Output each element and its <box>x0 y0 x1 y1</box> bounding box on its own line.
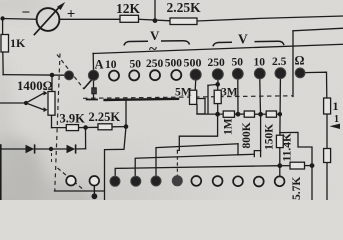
svg-text:5M: 5M <box>175 87 192 99</box>
svg-text:12K: 12K <box>116 1 141 16</box>
svg-text:+: + <box>67 7 76 23</box>
svg-text:50: 50 <box>232 57 244 69</box>
svg-text:2.25K: 2.25K <box>89 110 121 124</box>
svg-text:3.9K: 3.9K <box>60 112 86 126</box>
svg-text:1400Ω: 1400Ω <box>17 79 53 93</box>
svg-text:−: − <box>22 5 31 21</box>
svg-text:V: V <box>238 32 248 47</box>
svg-text:250: 250 <box>146 58 164 70</box>
svg-text:2.25K: 2.25K <box>167 0 202 15</box>
svg-text:1: 1 <box>334 114 339 125</box>
svg-text:Ω: Ω <box>295 54 305 68</box>
svg-text:5.7K: 5.7K <box>291 177 303 200</box>
svg-text:3M: 3M <box>221 87 238 99</box>
svg-text:~: ~ <box>149 42 157 58</box>
svg-text:50: 50 <box>130 59 142 71</box>
svg-text:1K: 1K <box>10 36 26 50</box>
svg-text:1M: 1M <box>223 118 235 135</box>
svg-text:10: 10 <box>105 59 117 71</box>
svg-text:500: 500 <box>165 58 183 70</box>
svg-text:250: 250 <box>208 57 226 69</box>
svg-text:500: 500 <box>184 56 202 70</box>
svg-text:11.4K: 11.4K <box>282 133 294 161</box>
svg-text:150K: 150K <box>264 124 276 150</box>
svg-text:2.5: 2.5 <box>272 56 287 68</box>
svg-text:10: 10 <box>254 57 266 69</box>
svg-text:1: 1 <box>333 99 339 113</box>
svg-text:A: A <box>95 58 104 72</box>
svg-text:800K: 800K <box>241 122 253 148</box>
